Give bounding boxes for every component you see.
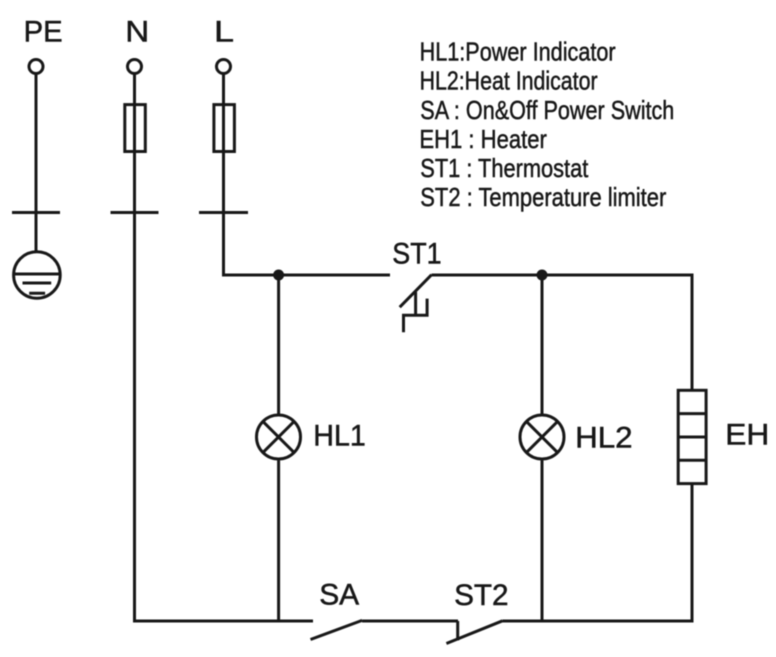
wire HL1 lower: [277, 461, 280, 623]
earth electrode symbol: [14, 252, 61, 299]
svg-text:HL1: HL1: [313, 420, 366, 453]
wire HL2 lower: [541, 461, 544, 623]
svg-text:SA: SA: [319, 579, 359, 612]
node L label: [214, 16, 234, 49]
svg-text:ST2: ST2: [454, 579, 509, 612]
wire PE vertical: [35, 74, 38, 252]
terminal bar N: [111, 211, 159, 214]
svg-text:SA : On&Off Power Switch: SA : On&Off Power Switch: [420, 95, 674, 125]
lamp HL1: [257, 415, 301, 459]
wire EH lower: [691, 484, 694, 623]
svg-text:HL2:Heat Indicator: HL2:Heat Indicator: [420, 66, 598, 96]
switch SA blade: [311, 620, 363, 639]
terminal bar PE: [12, 211, 60, 214]
fuse FU1 (N): [125, 105, 146, 152]
node junction dot B (to HL2): [537, 270, 548, 281]
wire ST2 to EH: [503, 620, 693, 623]
terminal L: [217, 60, 231, 74]
node junction dot A (L to HL1): [273, 270, 284, 281]
terminal bar L: [199, 211, 248, 214]
svg-text:L: L: [214, 16, 234, 49]
svg-text:EH: EH: [725, 419, 769, 452]
svg-text:ST1 : Thermostat: ST1 : Thermostat: [420, 153, 589, 183]
legend line SA: [420, 95, 674, 125]
svg-text:ST2 : Temperature limiter: ST2 : Temperature limiter: [420, 182, 666, 212]
legend line ST2: [420, 182, 666, 212]
wire HL1 upper: [277, 275, 280, 414]
heater EH: [678, 390, 706, 483]
wire HL2 upper: [541, 275, 544, 414]
terminal N: [128, 60, 142, 74]
lamp HL2: [520, 415, 564, 459]
SA label: [319, 579, 359, 612]
legend line HL2: [420, 66, 598, 96]
wire L vertical and top horizontal to ST1: [224, 74, 391, 275]
wire ST1 to EH top: [432, 275, 692, 390]
wire SA to ST2: [362, 620, 458, 623]
wire N vertical: [133, 74, 136, 623]
temperature limiter ST2: [446, 621, 502, 644]
svg-text:N: N: [125, 16, 149, 49]
EH label: [725, 419, 769, 452]
HL1 label: [313, 420, 366, 453]
node PE label: [24, 16, 63, 49]
node N label: [125, 16, 149, 49]
svg-text:EH1 : Heater: EH1 : Heater: [419, 124, 547, 154]
svg-text:HL1:Power Indicator: HL1:Power Indicator: [420, 37, 616, 67]
legend line HL1: [420, 37, 616, 67]
ST2 label: [454, 579, 509, 612]
HL2 label: [575, 422, 633, 455]
fuse FU2 (L): [214, 105, 235, 152]
svg-text:ST1: ST1: [392, 238, 441, 271]
legend line EH1: [419, 124, 547, 154]
thermostat ST1: [400, 275, 432, 333]
svg-text:HL2: HL2: [575, 422, 633, 455]
wire bottom left (N to SA): [135, 620, 314, 623]
terminal PE: [29, 60, 43, 74]
svg-text:PE: PE: [24, 16, 63, 49]
legend line ST1: [420, 153, 589, 183]
ST1 label: [392, 238, 441, 271]
